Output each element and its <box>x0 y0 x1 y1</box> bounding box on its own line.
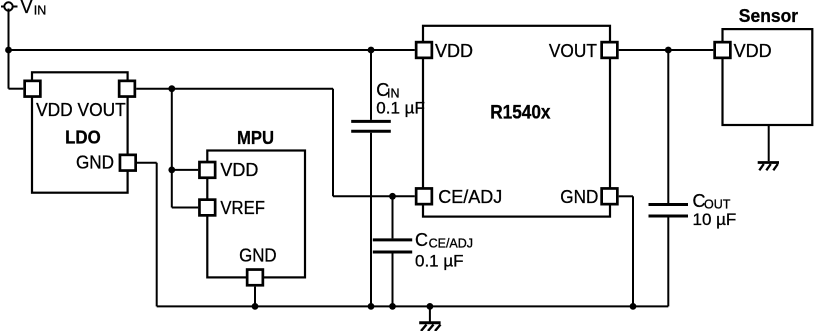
junction rail / CIN <box>368 303 375 310</box>
svg-text:MPU: MPU <box>237 128 274 148</box>
svg-text:LDO: LDO <box>65 126 101 147</box>
wire LDO GND <box>137 162 157 164</box>
MPU labels <box>220 128 276 266</box>
junction rail / CCE/ADJ <box>389 303 396 310</box>
R1540x pin CE/ADJ <box>416 188 432 204</box>
junction rail / MPU GND <box>252 303 259 310</box>
CIN value label <box>376 80 425 117</box>
R1540x pin VOUT <box>602 42 618 58</box>
capacitor COUT <box>667 50 669 203</box>
COUT value label <box>693 191 737 229</box>
junction CIN top tap <box>368 47 375 54</box>
input terminal VIN <box>1 6 18 8</box>
wire VIN stem <box>8 9 10 89</box>
svg-text:0.1 µF: 0.1 µF <box>376 98 425 117</box>
sensor labels <box>734 5 799 61</box>
wire VOUT-to-CE/ADJ vertical <box>332 89 334 197</box>
R1540x pin GND <box>602 188 618 204</box>
svg-text:10 µF: 10 µF <box>693 210 737 229</box>
regulator LDO box <box>32 72 128 192</box>
voltage regulator U1 R1540x box <box>423 26 610 217</box>
LDO pin VDD <box>25 81 41 97</box>
svg-text:VREF: VREF <box>220 198 265 218</box>
LDO pin VOUT <box>119 81 135 97</box>
junction LDO VOUT / MPU branch <box>168 85 175 92</box>
capacitor CIN <box>370 50 372 120</box>
MPU pin GND <box>247 270 263 286</box>
wire MPU GND to ground rail <box>254 287 256 307</box>
svg-text:GND: GND <box>239 246 277 266</box>
MPU pin VDD <box>199 162 215 178</box>
junction rail / ground symbol <box>427 303 434 310</box>
svg-text:CE/ADJ: CE/ADJ <box>429 236 473 250</box>
junction MPU VDD tap <box>168 167 175 174</box>
wire ground rail <box>157 305 669 307</box>
junction CCE/ADJ tap <box>389 193 396 200</box>
node VIN label <box>21 0 47 18</box>
ground main <box>429 306 431 321</box>
sensor block box <box>723 29 813 125</box>
svg-text:GND: GND <box>76 152 114 172</box>
svg-text:VOUT: VOUT <box>549 41 597 61</box>
svg-text:IN: IN <box>34 4 47 18</box>
wire VOUT rail to sensor <box>619 49 714 51</box>
R1540x labels <box>435 41 598 207</box>
svg-text:Sensor: Sensor <box>739 5 798 26</box>
svg-text:R1540x: R1540x <box>490 102 551 123</box>
svg-text:V: V <box>21 0 33 17</box>
wire to MPU VREF <box>172 207 198 209</box>
ground sensor <box>768 125 770 161</box>
wire to LDO VDD <box>9 88 24 90</box>
sensor pin VDD <box>715 42 731 58</box>
capacitor CCE/ADJ <box>392 196 394 238</box>
R1540x pin VDD <box>416 42 432 58</box>
svg-text:VDD VOUT: VDD VOUT <box>36 100 126 120</box>
svg-text:C: C <box>415 230 428 250</box>
wire LDO VOUT rail <box>136 88 333 90</box>
wire R1540x GND to rail <box>619 195 633 197</box>
wire MPU feed vertical <box>171 89 173 208</box>
junction VIN / top rail <box>5 47 12 54</box>
junction COUT tap <box>665 47 672 54</box>
MPU pin VREF <box>199 200 215 216</box>
CCE/ADJ value label <box>415 230 473 271</box>
microcontroller MPU box <box>207 151 305 278</box>
wire CE/ADJ horizontal <box>333 195 415 197</box>
LDO labels <box>36 100 126 172</box>
svg-text:VDD: VDD <box>220 160 258 180</box>
wire top rail to R1540x VDD <box>9 49 415 51</box>
svg-text:VDD: VDD <box>734 41 772 61</box>
LDO pin GND <box>120 155 136 171</box>
svg-text:GND: GND <box>560 187 598 207</box>
junction rail / R1540x GND drop <box>630 303 637 310</box>
wire to MPU VDD <box>172 169 198 171</box>
svg-text:VDD: VDD <box>435 41 473 61</box>
svg-text:0.1 µF: 0.1 µF <box>415 252 464 271</box>
svg-text:CE/ADJ: CE/ADJ <box>438 187 502 207</box>
